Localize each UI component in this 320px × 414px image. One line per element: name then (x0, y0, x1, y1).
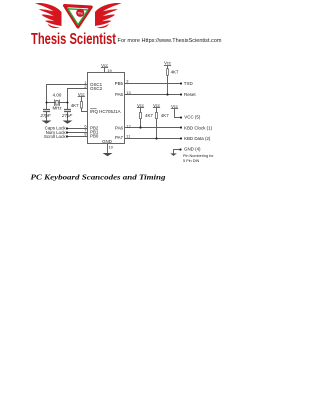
svg-text:27pF: 27pF (61, 113, 72, 118)
Vcc rail above IC (101, 63, 108, 68)
Vcc rail IRQ pull-up (78, 92, 85, 97)
wire right cap to ground (67, 103, 69, 121)
ground under left cap (42, 121, 52, 124)
junction dot crystal right node (67, 102, 69, 104)
Vcc rail reset pull-up (164, 61, 171, 66)
node dot KBD Data (180, 137, 182, 139)
logo triangle emblem (65, 6, 92, 27)
wire TXD (125, 83, 182, 85)
node dot VCC(5) (180, 116, 182, 118)
svg-text:Reset: Reset (184, 92, 196, 97)
svg-text:Vcc: Vcc (164, 61, 171, 66)
svg-text:10: 10 (109, 145, 114, 150)
wire KBD clock pull-up column (140, 108, 142, 128)
svg-text:2: 2 (84, 84, 86, 89)
svg-text:The: The (77, 11, 83, 15)
svg-text:TXD: TXD (184, 81, 193, 86)
svg-text:OSC2: OSC2 (90, 86, 103, 91)
wire Caps Lock to PB2 (67, 128, 88, 130)
Vcc rail clock pull-up (137, 103, 144, 108)
wire OSC2 pin 2 to crystal right node (68, 89, 88, 103)
svg-text:GND (4): GND (4) (184, 147, 201, 152)
svg-text:8: 8 (84, 132, 86, 137)
resistor 4K7 KBD data pull-up (156, 112, 158, 118)
note Pin Numbering for 5 Pin DIN (183, 154, 214, 163)
svg-text:4K7: 4K7 (161, 113, 169, 118)
wire left cap to ground (46, 103, 48, 121)
svg-text:5 Pin DIN: 5 Pin DIN (183, 159, 200, 163)
node dot Caps Lock (66, 127, 68, 129)
node dot Scroll Lock (66, 135, 68, 137)
wire KBD data pull-up column (156, 108, 158, 139)
capacitor 27pF left (43, 110, 50, 112)
Vcc rail VCC(5) (171, 104, 178, 109)
node dot Reset (180, 93, 182, 95)
wire IRQ pull-up (82, 97, 88, 112)
svg-text:27pF: 27pF (40, 113, 51, 118)
svg-text:IRQ HC705J1A: IRQ HC705J1A (90, 109, 121, 114)
wire reset pull-up column (167, 66, 169, 95)
svg-text:19: 19 (107, 68, 111, 73)
wire VCC(5) (175, 109, 182, 118)
resistor 4K7 reset pull-up (167, 69, 169, 76)
svg-text:4K7: 4K7 (171, 69, 179, 74)
svg-text:12: 12 (126, 123, 130, 128)
svg-text:13: 13 (126, 90, 130, 95)
svg-text:4K7: 4K7 (145, 113, 153, 118)
svg-text:4.00: 4.00 (53, 93, 62, 98)
junction dot data pull-up (155, 137, 157, 139)
wire GND(4) (174, 150, 181, 154)
svg-text:PB0: PB0 (90, 134, 99, 139)
svg-text:Scroll Lock: Scroll Lock (44, 134, 66, 139)
svg-text:11: 11 (126, 134, 130, 139)
wire OSC1 pin 1 to crystal left node (47, 85, 88, 103)
wire Vcc to pin 19 (104, 68, 106, 73)
Vcc rail data pull-up (153, 103, 160, 108)
svg-text:4K7: 4K7 (71, 103, 79, 108)
svg-text:VCC (5): VCC (5) (184, 115, 201, 120)
svg-text:PA5: PA5 (115, 92, 124, 97)
ground under IC (103, 153, 113, 156)
svg-text:KBD Data (2): KBD Data (2) (184, 136, 211, 141)
svg-text:PA7: PA7 (115, 135, 124, 140)
wire crystal line (47, 102, 68, 104)
wire KBD Clock (125, 127, 182, 129)
svg-text:PA6: PA6 (115, 126, 124, 131)
svg-text:PB5: PB5 (115, 81, 124, 86)
svg-text:3: 3 (126, 79, 128, 84)
ground under right cap (63, 121, 73, 124)
svg-text:For more Https://www.ThesisSci: For more Https://www.ThesisScientist.com (118, 38, 222, 44)
resistor 4K7 IRQ pull-up (81, 102, 83, 109)
svg-text:Pin Numbering for: Pin Numbering for (183, 154, 214, 158)
wire Num Lock to PB1 (67, 132, 88, 134)
svg-text:MHz: MHz (52, 105, 61, 110)
wire Scroll Lock to PB0 (67, 136, 88, 138)
resistor 4K7 KBD clock pull-up (140, 112, 142, 118)
capacitor 27pF right (64, 110, 71, 112)
node dot GND(4) (179, 148, 181, 150)
IC U1 HC705J1A body (88, 73, 125, 144)
svg-text:Thesis Scientist: Thesis Scientist (31, 31, 116, 48)
crystal X1 4.00 MHz (55, 100, 60, 107)
svg-text:KBD Clock (1): KBD Clock (1) (184, 126, 213, 131)
logo left wing (35, 3, 62, 28)
ground DIN pin 4 (170, 153, 177, 156)
junction dot crystal left node (46, 102, 48, 104)
junction dot reset pull-up (166, 93, 168, 95)
logo right wing (95, 3, 122, 28)
junction dot clock pull-up (139, 126, 141, 128)
svg-text:GND: GND (102, 139, 112, 144)
node dot TXD (180, 82, 182, 84)
wire IC GND pin 10 (107, 144, 109, 154)
wire Reset (125, 94, 182, 96)
node dot KBD Clock (180, 126, 182, 128)
wire KBD Data (125, 138, 182, 140)
svg-text:PC Keyboard Scancodes and Timi: PC Keyboard Scancodes and Timing (31, 173, 166, 182)
node dot Num Lock (66, 131, 68, 133)
